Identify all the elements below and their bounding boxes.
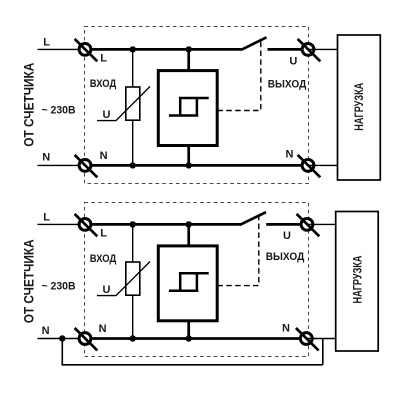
- node: L junction at relay (top): [186, 46, 192, 52]
- node: N junction at relay (bottom): [186, 335, 192, 341]
- hysteresis symbol (top): [169, 98, 209, 116]
- terminal N output (top): [298, 155, 321, 177]
- pin: relay bottom lead (bottom): [187, 321, 190, 339]
- dashed enclosure box (bottom device): [85, 203, 309, 357]
- svg-text:U: U: [283, 230, 291, 242]
- svg-text:N: N: [282, 323, 290, 335]
- svg-text:ОТ СЧЕТЧИКА: ОТ СЧЕТЧИКА: [21, 63, 37, 147]
- svg-text:L: L: [100, 228, 107, 240]
- svg-text:L: L: [100, 53, 107, 65]
- terminal N input (bottom): [75, 328, 98, 350]
- wire: varistor bottom lead (bottom): [132, 295, 134, 339]
- varistor diagonal stroke (bottom): [97, 262, 150, 296]
- terminal U output (top): [298, 39, 321, 61]
- varistor body (bottom): [126, 262, 140, 295]
- switch blade (bottom): [240, 212, 266, 225]
- svg-text:N: N: [99, 323, 107, 335]
- wire: varistor top lead (top): [132, 49, 134, 88]
- varistor diagonal stroke (top): [97, 87, 150, 121]
- svg-text:ВЫХОД: ВЫХОД: [268, 78, 307, 90]
- svg-text:ВХОД: ВХОД: [90, 78, 117, 90]
- wire: N bypass drop (bottom): [61, 339, 63, 365]
- pin: relay top lead (bottom): [187, 224, 190, 246]
- wire: varistor bottom lead (top): [132, 120, 134, 166]
- load box (bottom): [336, 212, 379, 352]
- svg-text:N: N: [100, 150, 108, 162]
- svg-text:L: L: [43, 212, 50, 224]
- svg-text:N: N: [286, 149, 294, 161]
- svg-text:НАГРУЗКА: НАГРУЗКА: [354, 83, 366, 131]
- wire: N terminal to load (bottom): [306, 338, 336, 340]
- node: N feed junction (bottom): [59, 335, 65, 341]
- wire: varistor top lead (bottom): [132, 224, 134, 263]
- wire: U terminal to load (bottom): [307, 223, 336, 225]
- svg-text:L: L: [43, 37, 50, 49]
- dashed control link relay-to-switch (top): [217, 39, 260, 111]
- wire: L bus from terminal to switch pivot (top): [85, 48, 242, 51]
- varistor body (top): [126, 87, 140, 120]
- terminal U output (bottom): [297, 214, 320, 236]
- svg-text:U: U: [103, 284, 111, 296]
- switch blade (top): [241, 37, 266, 50]
- svg-text:N: N: [42, 152, 50, 164]
- svg-text:U: U: [103, 109, 111, 121]
- pin: relay bottom lead (top): [187, 145, 190, 165]
- dashed enclosure box (top device): [85, 27, 309, 184]
- wire: N bypass bottom rail (bottom): [62, 364, 323, 366]
- svg-text:U: U: [289, 55, 297, 67]
- wire: U terminal to load (top): [308, 48, 338, 50]
- relay control unit box U2 (bottom): [158, 246, 217, 321]
- svg-text:ВЫХОД: ВЫХОД: [266, 251, 305, 263]
- node: L junction at relay (bottom): [186, 221, 192, 227]
- svg-text:~ 230В: ~ 230В: [42, 105, 76, 117]
- svg-text:N: N: [42, 325, 50, 337]
- relay control unit box U1 (top): [158, 71, 217, 146]
- node: L junction at varistor (top): [130, 46, 136, 52]
- svg-text:ВХОД: ВХОД: [90, 253, 117, 265]
- pin: relay top lead (top): [187, 49, 190, 70]
- wire: N feed from meter (top): [38, 164, 86, 166]
- node: L junction at varistor (bottom): [130, 221, 136, 227]
- wire: switch fixed contact to U terminal (top): [268, 48, 309, 51]
- wire: N bus from terminal to right N terminal (top): [85, 164, 308, 167]
- terminal N input (top): [75, 155, 98, 177]
- wire: L bus from terminal to switch pivot (bottom): [85, 223, 241, 226]
- wire: N bus from terminal to right N terminal (bottom): [85, 337, 306, 340]
- wire: N bypass riser (bottom): [322, 339, 324, 365]
- wire: N feed from meter (bottom): [38, 338, 86, 340]
- wire: L feed from meter (bottom): [38, 223, 86, 225]
- terminal L input (top): [75, 39, 98, 61]
- wire: switch fixed contact to U terminal (bottom): [266, 223, 307, 226]
- load box (top): [338, 35, 381, 180]
- node: N junction at varistor (top): [130, 162, 136, 168]
- terminal L input (bottom): [75, 214, 98, 236]
- wire: N terminal to load (top): [308, 164, 338, 166]
- hysteresis symbol (bottom): [169, 273, 209, 291]
- node: N junction at varistor (bottom): [130, 335, 136, 341]
- svg-text:ОТ СЧЕТЧИКА: ОТ СЧЕТЧИКА: [21, 239, 37, 323]
- dashed control link relay-to-switch (bottom): [217, 213, 258, 285]
- svg-text:НАГРУЗКА: НАГРУЗКА: [352, 256, 364, 304]
- wire: L feed from meter (top): [38, 48, 86, 50]
- node: N junction at relay (top): [186, 162, 192, 168]
- terminal N output (bottom): [296, 328, 319, 350]
- svg-text:~ 230В: ~ 230В: [42, 281, 76, 293]
